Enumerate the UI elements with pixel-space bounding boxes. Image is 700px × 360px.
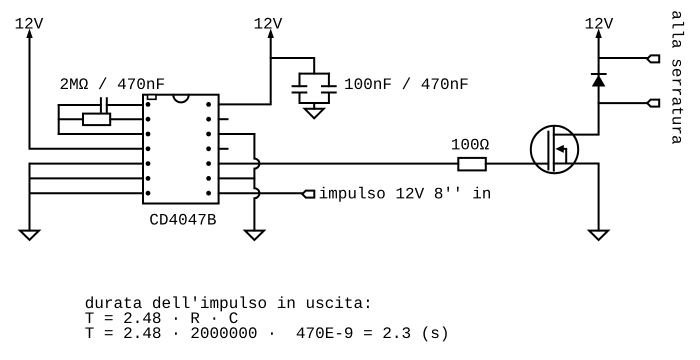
power label 12V left <box>16 18 44 29</box>
wire RC combo to IC pin 3 <box>59 133 143 135</box>
wire resistor R2 to MOSFET gate <box>486 163 549 165</box>
wire filter caps bottom bar <box>300 102 329 104</box>
IC U1 pin 1 mark <box>148 95 157 100</box>
ground MOSFET source <box>589 231 608 240</box>
wire filter caps top bar <box>300 73 329 75</box>
wire IC pin 3 to center ground bus <box>219 133 255 135</box>
formula line 1 <box>86 296 369 311</box>
resistor R1 2MΩ timing <box>59 114 143 126</box>
label alla serratura <box>672 11 684 144</box>
resistor R2 100Ω <box>458 158 486 171</box>
op-amp/IC U1 CD4047B body <box>143 95 219 204</box>
capacitor C1 470nF timing <box>59 98 143 112</box>
label 100nF / 470nF <box>345 77 468 89</box>
terminal impulso input <box>302 191 314 198</box>
formula line 3 <box>85 326 447 341</box>
ground filter caps <box>305 109 324 119</box>
IC U1 notch <box>173 95 188 103</box>
power arrow 12V center <box>268 29 274 39</box>
diode D1 flyback <box>592 74 606 87</box>
transistor Q1 MOSFET <box>531 126 578 173</box>
label 2MΩ / 470nF <box>61 77 164 89</box>
terminal lock lower <box>647 100 659 107</box>
wire 12V left rail to IC pin 4 <box>30 36 144 149</box>
power arrow 12V right <box>595 29 601 39</box>
IC U1 right stub pin 2 <box>219 118 228 120</box>
label 100Ω <box>452 139 489 150</box>
wire ground bus left (pins 5,6,7) <box>30 164 144 231</box>
power label 12V right <box>586 18 614 29</box>
formula line 2 <box>85 312 237 323</box>
capacitor C2 100nF <box>293 74 307 103</box>
wire IC pin 5 to gate resistor <box>219 163 459 165</box>
wire MOSFET drain to 12V rail <box>554 36 599 135</box>
power arrow 12V left <box>26 29 32 39</box>
wire MOSFET source to ground <box>554 164 599 231</box>
ground center bus <box>245 231 264 240</box>
IC U1 right pin contacts <box>206 102 211 196</box>
wire IC pin 6 to center ground bus <box>219 177 255 179</box>
wire RC combo left vertical <box>58 105 60 134</box>
IC U1 right stub pin 4 <box>219 148 228 150</box>
IC U1 left pin contacts <box>146 102 151 196</box>
wire to lower lock terminal <box>599 102 648 104</box>
label impulso 12V 8'' in <box>320 187 490 202</box>
capacitor C3 470nF <box>322 74 336 103</box>
wire filter caps to ground <box>313 103 315 109</box>
ground left <box>20 231 39 240</box>
wire center ground bus with hops <box>254 134 259 231</box>
wire 12V rail to filter caps <box>271 58 315 74</box>
wire IC pin 1 to center 12V rail <box>219 36 271 104</box>
label CD4047B <box>150 214 216 225</box>
power label 12V center <box>255 18 283 29</box>
wire IC pin 7 to input terminal <box>219 192 303 194</box>
wire to upper lock terminal <box>599 57 648 59</box>
terminal lock upper <box>647 55 659 62</box>
